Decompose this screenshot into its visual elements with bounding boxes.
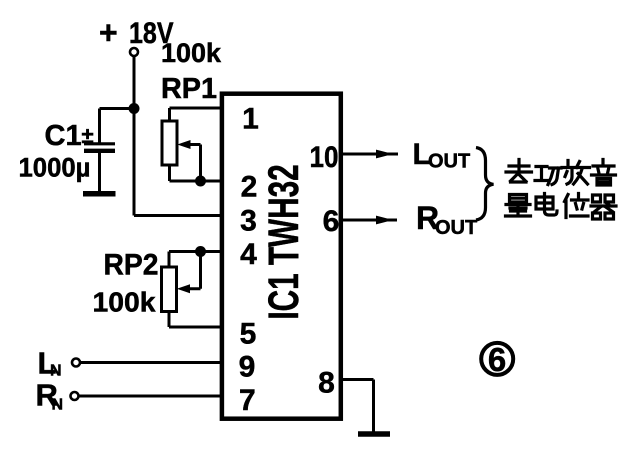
svg-text:3: 3 bbox=[240, 205, 257, 238]
svg-text:RP2: RP2 bbox=[104, 249, 159, 282]
svg-text:8: 8 bbox=[318, 367, 335, 400]
svg-text:C1: C1 bbox=[45, 120, 82, 152]
svg-text:4: 4 bbox=[240, 238, 257, 271]
svg-text:±: ± bbox=[82, 123, 94, 148]
svg-text:RP1: RP1 bbox=[161, 73, 217, 105]
svg-text:100k: 100k bbox=[93, 287, 156, 318]
svg-text:1000µ: 1000µ bbox=[19, 153, 91, 183]
svg-text:+: + bbox=[99, 15, 118, 51]
svg-text:OUT: OUT bbox=[428, 151, 470, 173]
svg-text:100k: 100k bbox=[161, 38, 222, 68]
svg-text:9: 9 bbox=[239, 350, 256, 383]
svg-text:N: N bbox=[52, 397, 64, 414]
svg-text:IC1 TWH32: IC1 TWH32 bbox=[260, 164, 308, 319]
svg-text:10: 10 bbox=[310, 141, 339, 174]
svg-text:OUT: OUT bbox=[435, 217, 477, 239]
svg-text:6: 6 bbox=[488, 341, 506, 378]
svg-text:1: 1 bbox=[242, 103, 259, 136]
svg-text:6: 6 bbox=[323, 205, 340, 238]
svg-text:2: 2 bbox=[241, 171, 258, 204]
svg-text:7: 7 bbox=[239, 384, 256, 417]
svg-text:5: 5 bbox=[240, 317, 257, 350]
